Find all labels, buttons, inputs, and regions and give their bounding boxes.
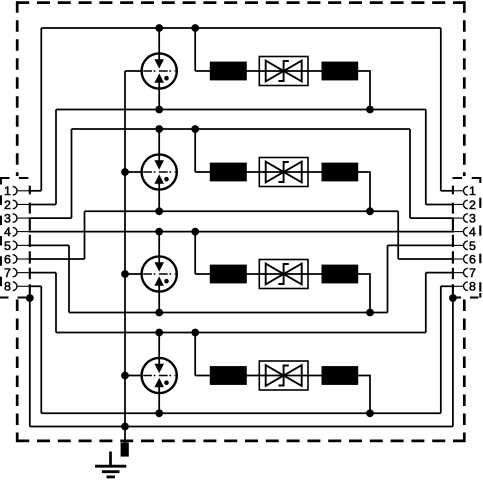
suppressor diode D1 right triangle	[284, 61, 302, 82]
suppressor diode D4 left triangle	[266, 365, 284, 386]
node junction B-bus/series-chain row 3	[366, 309, 374, 317]
wire riser right terminal 2	[425, 110, 427, 205]
wire GDT bottom electrode row 4	[158, 387, 160, 414]
wire series chain horizontal row 3	[195, 273, 322, 275]
wire terminal 7 left stub	[17, 272, 31, 274]
GDT F1 upper arrow electrode	[155, 60, 164, 69]
GDT F2 lower arrow electrode	[155, 175, 164, 184]
terminal 7 left socket contact	[13, 268, 17, 277]
resistor R2a (decoupling impedance)	[210, 163, 247, 182]
wire ground bus	[30, 426, 453, 428]
terminal 1 right socket contact	[463, 187, 467, 196]
GDT F3 lower arrow electrode	[155, 277, 164, 286]
wire terminal 4 left stub	[17, 231, 31, 233]
suppressor diode D2 zener bar	[278, 162, 288, 182]
wire series chain horizontal row 1	[195, 70, 322, 72]
GDT F3 center electrode dash-dot line	[143, 273, 175, 275]
left terminal box bottom edge	[0, 296, 30, 298]
wire series chain to B-bus row 3	[358, 274, 370, 313]
wire terminal 6 left stub	[17, 258, 31, 260]
wire line-B bus row 2	[85, 210, 399, 212]
surge arrester GDT F1 circle	[142, 53, 177, 88]
suppressor diode D1 left triangle	[266, 61, 284, 82]
resistor R3a (decoupling impedance)	[210, 265, 247, 284]
svg-text:2: 2	[4, 198, 11, 212]
GDT F1 indicator dot	[164, 76, 169, 81]
wire GDT top electrode row 1	[158, 28, 160, 60]
wire terminal 1 left stub	[17, 190, 31, 192]
terminal 8 left socket contact	[13, 282, 17, 291]
wire GDT top electrode row 4	[158, 333, 160, 365]
wire terminal 7 right lead	[426, 272, 454, 274]
enclosure dashed border top	[16, 1, 465, 4]
node junction B-bus/GDT row 1	[155, 106, 163, 114]
wire line-A bus row 2	[72, 128, 411, 130]
wire riser left terminal 1	[40, 28, 42, 191]
wire riser right terminal 1	[440, 28, 442, 191]
wire terminal 1 right stub	[452, 190, 464, 192]
wire through suppressor box row 4	[259, 375, 308, 377]
wire terminal 7 right stub	[452, 272, 464, 274]
svg-text:6: 6	[469, 252, 476, 266]
node junction ground riser/center electrode row 2	[121, 168, 129, 176]
wire series chain drop row 4	[194, 333, 196, 376]
node junction B-bus/series-chain row 4	[366, 409, 374, 417]
suppressor diode D4 zener bar	[278, 366, 288, 386]
wire left ground drop	[29, 293, 31, 427]
terminal 3 right socket contact	[463, 214, 467, 223]
svg-text:5: 5	[469, 239, 476, 253]
suppressor diode D4 box	[259, 361, 308, 390]
svg-text:2: 2	[469, 198, 476, 212]
terminal 2 right socket contact	[463, 200, 467, 209]
wire GDT bottom electrode row 2	[158, 183, 160, 211]
node junction A-bus/series-chain row 1	[191, 24, 199, 32]
resistor R3b (decoupling impedance)	[322, 265, 359, 284]
GDT F1 center electrode dash-dot line	[143, 70, 175, 72]
terminal 5 right socket contact	[463, 241, 467, 250]
wire through suppressor box row 3	[259, 273, 308, 275]
node junction ground riser/ground bus	[121, 423, 129, 431]
svg-text:8: 8	[469, 280, 476, 294]
GDT F3 indicator dot	[164, 279, 169, 284]
terminal 8 right socket contact	[464, 282, 468, 291]
wire terminal 1 left lead	[29, 190, 42, 192]
resistor R4a (decoupling impedance)	[210, 366, 247, 385]
resistor R1b (decoupling impedance)	[322, 62, 359, 81]
wire line-A bus row 3	[29, 231, 454, 233]
enclosure dashed border bottom	[16, 440, 465, 443]
node junction A-bus/GDT row 3	[155, 228, 163, 236]
wire terminal 2 right lead	[426, 203, 454, 205]
node junction B-bus/GDT row 3	[155, 309, 163, 317]
left terminal box outer edge	[0, 178, 2, 299]
wire terminal 6 right lead	[398, 258, 454, 260]
svg-text:5: 5	[4, 239, 11, 253]
suppressor diode D3 right triangle	[284, 264, 302, 285]
suppressor diode D1 box	[259, 57, 308, 86]
wire series chain to B-bus row 2	[358, 172, 370, 211]
earth symbol stem	[109, 452, 112, 467]
terminal 4 left socket contact	[13, 227, 17, 236]
wire GDT top electrode row 2	[158, 129, 160, 161]
wire terminal 8 left lead	[29, 285, 42, 287]
suppressor diode D4 right triangle	[284, 365, 302, 386]
node junction left ground contact	[26, 294, 34, 302]
GDT F4 center electrode dash-dot line	[143, 375, 175, 377]
GDT F3 upper arrow electrode	[155, 263, 164, 272]
wire series chain drop row 2	[194, 129, 196, 172]
wire series chain drop row 1	[194, 28, 196, 71]
enclosure dashed border left upper	[16, 1, 19, 176]
wire riser right terminal 3	[409, 129, 411, 218]
wire through suppressor box row 2	[259, 171, 308, 173]
wire terminal 5 left lead	[29, 244, 69, 246]
right terminal box outer edge	[479, 178, 481, 298]
resistor R1a (decoupling impedance)	[210, 62, 247, 81]
node junction A-bus/series-chain row 4	[191, 329, 199, 337]
terminal 4 right socket contact	[463, 227, 467, 236]
svg-text:4: 4	[4, 225, 11, 239]
wire right ground drop	[452, 293, 454, 427]
wire terminal 2 left lead	[29, 203, 56, 205]
surge arrester GDT F2 circle	[142, 154, 177, 189]
svg-text:3: 3	[4, 212, 11, 226]
wire terminal 3 left stub	[17, 217, 31, 219]
wire terminal 3 right lead	[410, 217, 454, 219]
resistor R2b (decoupling impedance)	[322, 163, 359, 182]
suppressor diode D3 left triangle	[266, 264, 284, 285]
enclosure dashed border right upper	[463, 1, 466, 176]
wire series chain to B-bus row 4	[358, 376, 370, 414]
GDT F1 lower arrow electrode	[155, 74, 164, 83]
terminal 1 left socket contact	[13, 187, 17, 196]
wire terminal 5 right stub	[452, 244, 464, 246]
wire through suppressor box row 1	[259, 70, 308, 72]
wire terminal 6 left lead	[29, 258, 85, 260]
GDT F2 upper arrow electrode	[155, 161, 164, 170]
svg-text:6: 6	[4, 252, 11, 266]
wire terminal 1 right lead	[441, 190, 454, 192]
right terminal box inner edge / plug contacts	[452, 186, 454, 294]
suppressor diode D3 box	[259, 260, 308, 289]
terminal 6 right socket contact	[464, 255, 468, 264]
wire riser left terminal 2	[55, 110, 57, 205]
earth symbol bar 1	[95, 465, 126, 468]
wire GDT center electrode to ground bus row 1	[125, 70, 142, 72]
wire terminal 3 left lead	[29, 217, 72, 219]
enclosure dashed border left lower	[16, 300, 19, 443]
node junction B-bus/GDT row 4	[155, 409, 163, 417]
node junction A-bus/series-chain row 3	[191, 228, 199, 236]
svg-text:4: 4	[469, 225, 476, 239]
svg-text:3: 3	[469, 212, 476, 226]
svg-text:1: 1	[4, 184, 11, 198]
wire riser left terminal 3	[71, 129, 73, 218]
surge arrester GDT F4 circle	[142, 358, 177, 393]
wire line-B bus row 3	[69, 312, 388, 314]
wire GDT top electrode row 3	[158, 232, 160, 263]
GDT F4 upper arrow electrode	[155, 364, 164, 373]
suppressor diode D2 left triangle	[266, 162, 284, 183]
resistor R4b (decoupling impedance)	[322, 366, 359, 385]
wire GDT center electrode to ground bus row 3	[125, 273, 142, 275]
wire line-A bus row 4	[56, 332, 426, 334]
node junction ground riser/center electrode row 3	[121, 270, 129, 278]
wire line-B bus row 1	[56, 109, 426, 111]
suppressor diode D3 zener bar	[278, 264, 288, 284]
wire GDT bottom electrode row 3	[158, 285, 160, 312]
wire terminal 4 right stub	[452, 231, 464, 233]
GDT F4 lower arrow electrode	[155, 379, 164, 388]
wire terminal 8 right lead	[441, 285, 454, 287]
left terminal box top edge	[0, 177, 30, 179]
svg-text:7: 7	[4, 266, 11, 280]
earth symbol bar 2	[102, 470, 120, 473]
wire ground riser (GDT center electrodes)	[124, 71, 126, 427]
wire riser left terminal 5	[68, 245, 70, 312]
terminal 7 right socket contact	[464, 268, 468, 277]
node junction B-bus/GDT row 2	[155, 207, 163, 215]
svg-text:1: 1	[469, 184, 476, 198]
svg-text:7: 7	[469, 266, 476, 280]
surge arrester GDT F3 circle	[142, 256, 177, 291]
terminal 2 left socket contact	[13, 200, 17, 209]
terminal 6 left socket contact	[13, 255, 17, 264]
wire riser left terminal 7	[55, 273, 57, 333]
node junction A-bus/GDT row 4	[155, 329, 163, 337]
wire terminal 2 right stub	[452, 203, 464, 205]
wire line-A bus row 1	[41, 27, 441, 29]
node junction B-bus/series-chain row 2	[366, 207, 374, 215]
GDT F2 indicator dot	[164, 177, 169, 182]
wire series chain horizontal row 2	[195, 171, 322, 173]
terminal 3 left socket contact	[13, 214, 17, 223]
wire riser right terminal 8	[440, 286, 442, 413]
node junction right ground contact	[449, 294, 457, 302]
right terminal box top edge	[453, 177, 483, 179]
wire terminal 5 right lead	[388, 244, 454, 246]
earth symbol bar 3	[107, 475, 115, 478]
wire terminal 6 right stub	[452, 258, 464, 260]
wire line-B bus row 4	[41, 412, 441, 414]
wire riser right terminal 6	[397, 211, 399, 259]
wire riser left terminal 8	[40, 286, 42, 413]
wire riser right terminal 7	[425, 273, 427, 333]
wire riser right terminal 5	[387, 245, 389, 312]
PE terminal contact blade	[121, 443, 129, 457]
wire terminal 8 left stub	[17, 285, 31, 287]
GDT F2 center electrode dash-dot line	[143, 171, 175, 173]
right terminal box bottom edge	[453, 296, 483, 298]
wire terminal 8 right stub	[452, 285, 464, 287]
wire series chain to B-bus row 1	[358, 71, 370, 110]
terminal 5 left socket contact	[13, 241, 17, 250]
wire terminal 7 left lead	[29, 272, 56, 274]
enclosure dashed border right lower	[463, 300, 466, 443]
node junction ground riser/center electrode row 4	[121, 372, 129, 380]
node junction A-bus/GDT row 2	[155, 125, 163, 133]
wire terminal 2 left stub	[17, 203, 31, 205]
wire GDT center electrode to ground bus row 2	[125, 171, 142, 173]
wire GDT center electrode to ground bus row 4	[125, 375, 142, 377]
wire ground bus to PE terminal	[124, 427, 126, 444]
node junction B-bus/series-chain row 1	[366, 106, 374, 114]
left terminal box inner edge / plug contacts	[29, 186, 31, 294]
wire riser left terminal 6	[84, 211, 86, 259]
wire series chain horizontal row 4	[195, 375, 322, 377]
node junction A-bus/GDT row 1	[155, 24, 163, 32]
wire terminal 5 left stub	[17, 244, 31, 246]
suppressor diode D2 right triangle	[284, 162, 302, 183]
suppressor diode D2 box	[259, 158, 308, 187]
wire series chain drop row 3	[194, 232, 196, 274]
wire GDT bottom electrode row 1	[158, 82, 160, 109]
node junction A-bus/series-chain row 2	[191, 125, 199, 133]
suppressor diode D1 zener bar	[278, 61, 288, 81]
GDT F4 indicator dot	[164, 380, 169, 385]
wire terminal 3 right stub	[452, 217, 464, 219]
svg-text:8: 8	[4, 280, 11, 294]
